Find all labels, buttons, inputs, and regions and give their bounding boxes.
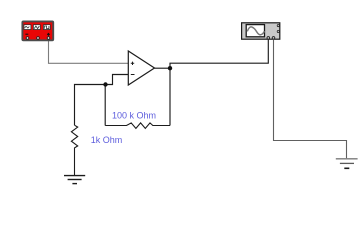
node A junction dot <box>103 82 107 86</box>
resistor R2 1 kOhm <box>71 125 77 175</box>
wire from function generator + output to op-amp non-inverting input <box>49 38 129 63</box>
ground (right, oscilloscope reference) <box>336 159 358 169</box>
function generator XFG1 <box>22 21 53 40</box>
oscilloscope XSC1 <box>242 23 280 39</box>
svg-text:100 k Ohm: 100 k Ohm <box>112 110 156 120</box>
wire node B up and right to oscilloscope left terminal <box>170 40 268 69</box>
wire inverting-input step from node A <box>106 75 129 85</box>
wire oscilloscope right terminal to right ground <box>274 40 347 159</box>
resistor R1 100 kOhm (feedback) <box>105 123 170 128</box>
wire op-amp output to node B <box>155 67 171 69</box>
svg-text:1k Ohm: 1k Ohm <box>91 135 123 145</box>
wire node B down to 100 kOhm resistor right end <box>169 68 171 125</box>
op-amp U1 <box>128 51 154 85</box>
node B junction dot <box>168 66 172 70</box>
ground (left, below R2) <box>64 176 85 184</box>
wire node A to 1 kOhm resistor top <box>75 85 106 126</box>
wire node A down to 100 kOhm resistor left end <box>104 85 106 126</box>
